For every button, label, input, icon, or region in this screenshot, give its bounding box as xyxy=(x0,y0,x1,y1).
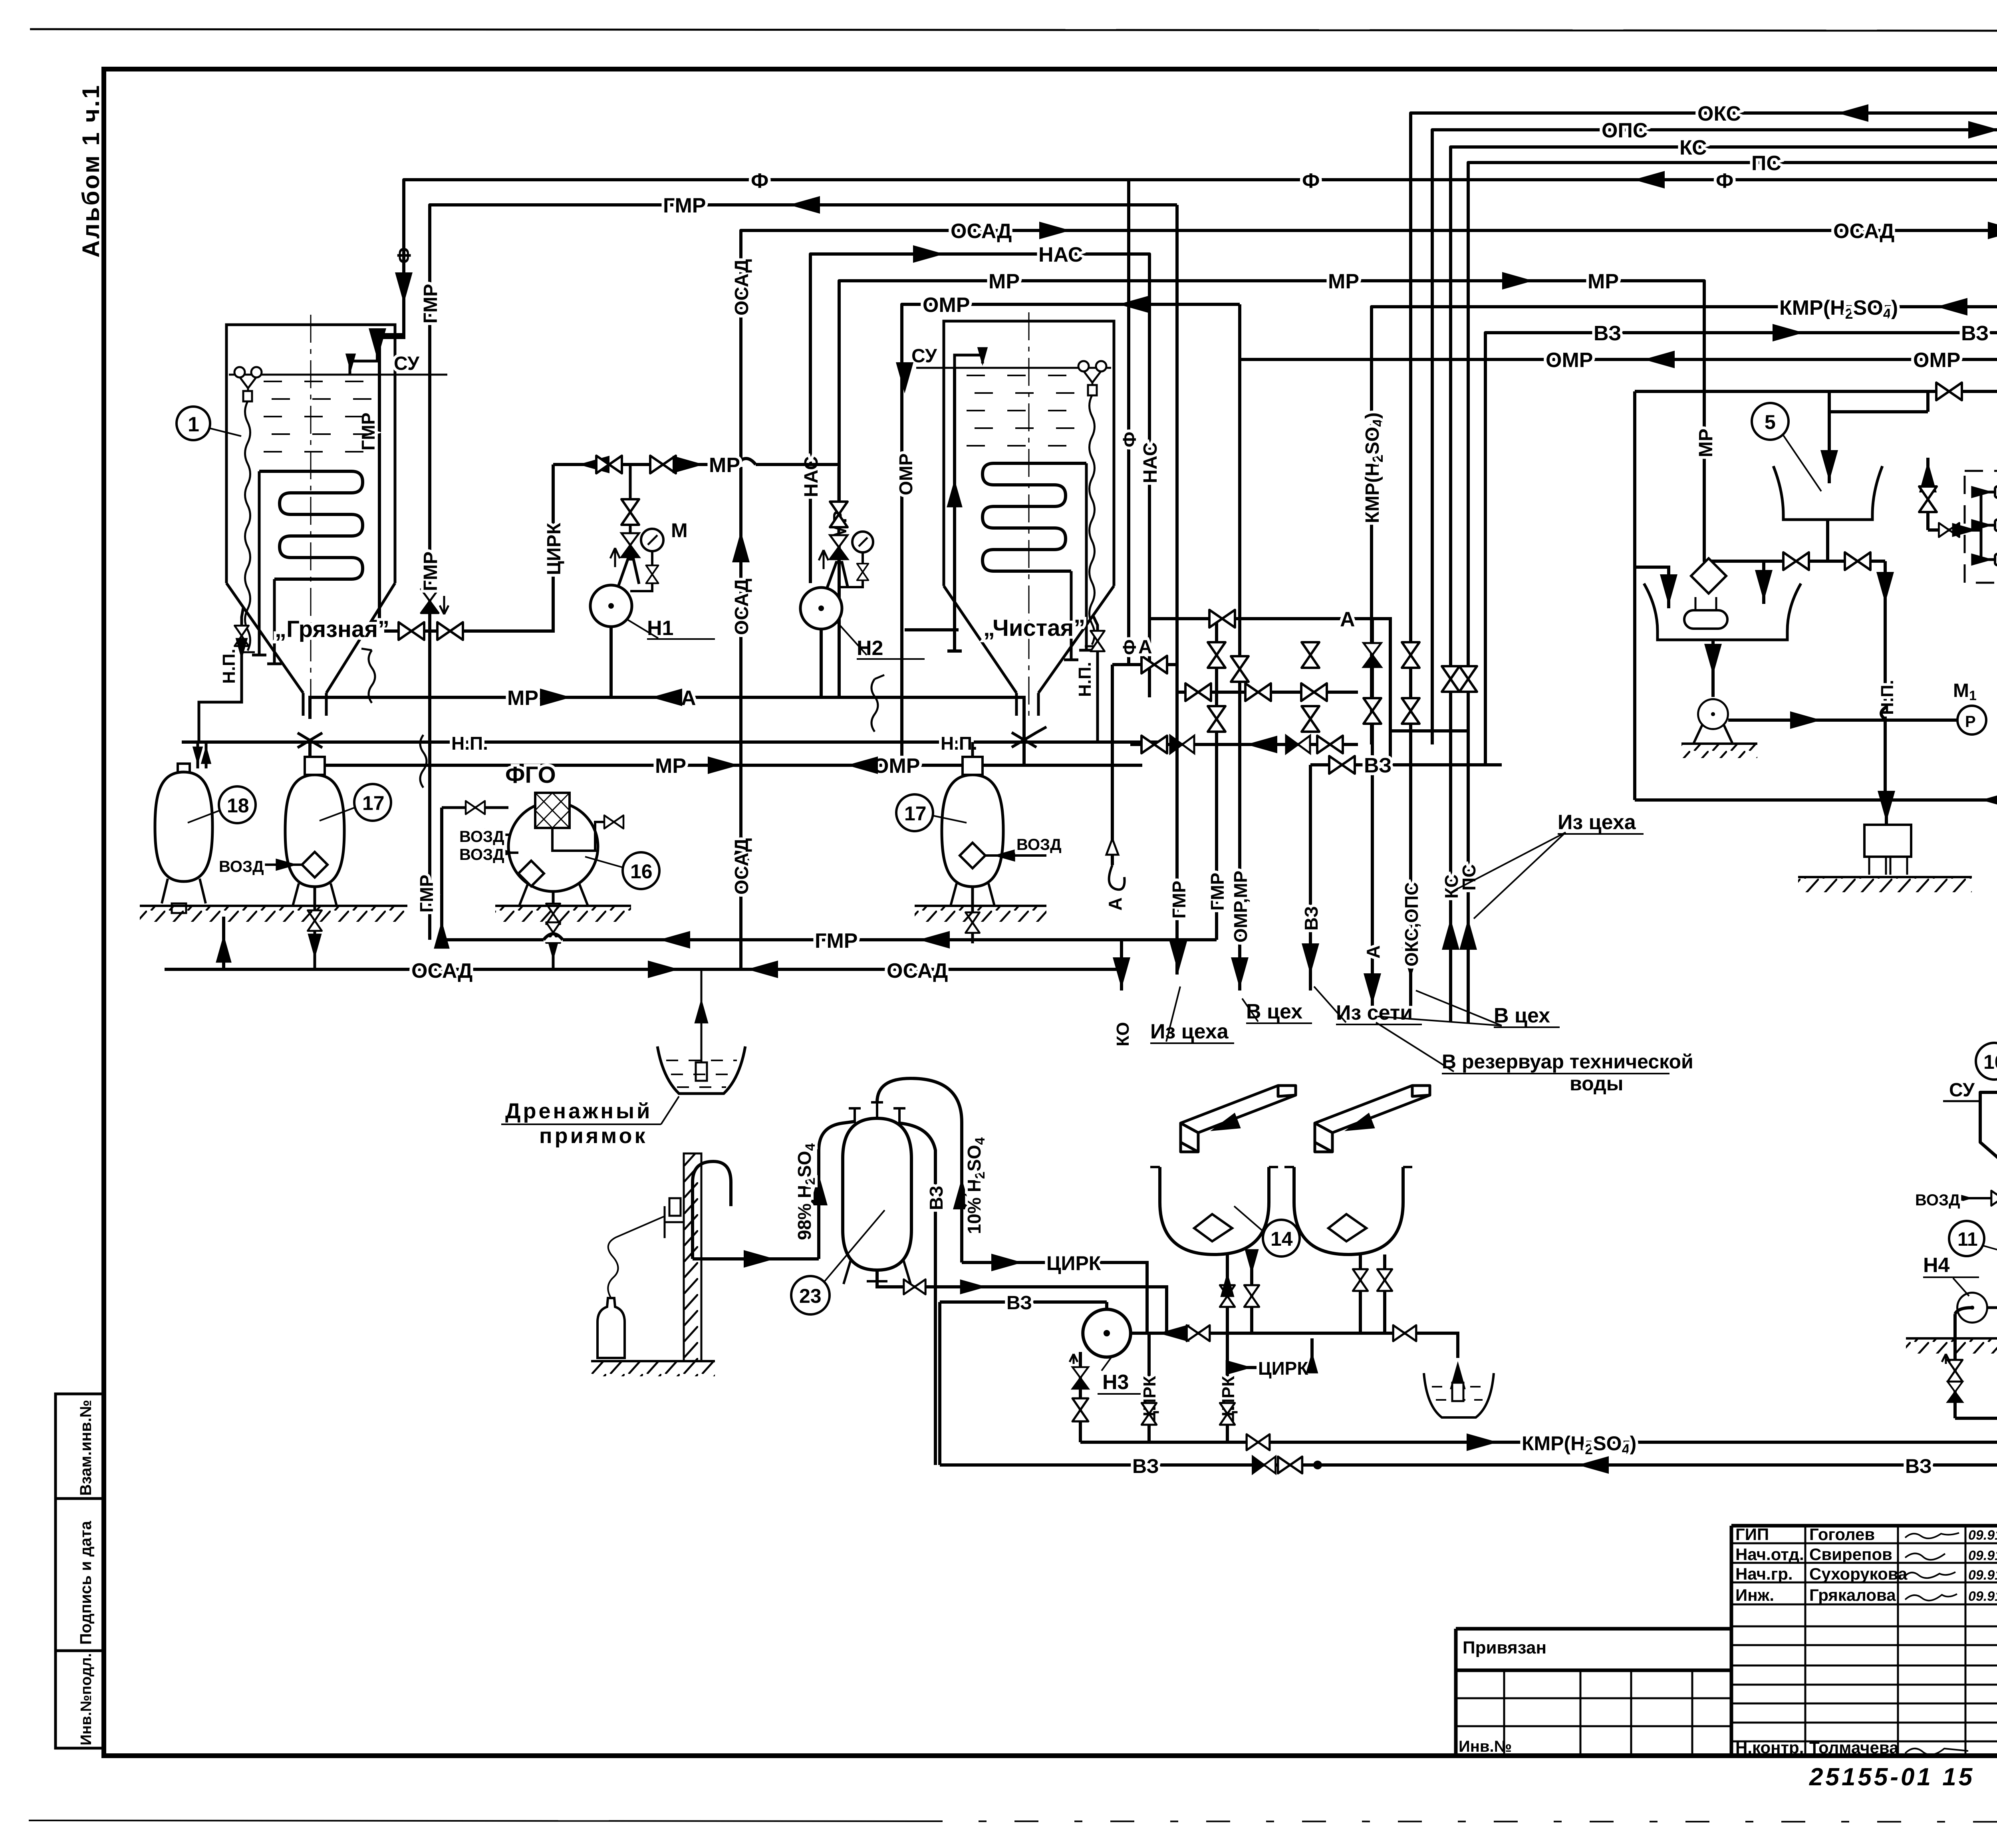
svg-text:Н1: Н1 xyxy=(647,617,673,640)
svg-text:ОМР: ОМР xyxy=(923,294,970,317)
svg-text:Из цеха: Из цеха xyxy=(1558,811,1636,834)
pipe КС top xyxy=(1451,147,1997,765)
М1 motor xyxy=(1957,706,1986,734)
svg-text:Н3: Н3 xyxy=(1102,1371,1129,1394)
svg-text:Толмачева: Толмачева xyxy=(1809,1738,1899,1757)
H1 suction xyxy=(609,627,613,697)
H1 discharge column xyxy=(618,464,639,586)
svg-text:Н.П.: Н.П. xyxy=(1075,662,1095,697)
valve on ГМР vertical xyxy=(421,589,439,613)
vessel 17 right xyxy=(942,775,1003,887)
tank 1 Ф-ГМР inlet riser xyxy=(371,180,404,621)
tub outlet to pump xyxy=(1711,640,1715,697)
pump Н4 xyxy=(1957,1293,1987,1323)
ФГО inlet valve left xyxy=(442,806,508,809)
vessel 23 bottom outlet xyxy=(877,1270,1167,1333)
manifold valves on verticals xyxy=(1208,642,1225,668)
H2 suction xyxy=(820,629,823,697)
pump left unit5 xyxy=(1698,699,1728,729)
svg-text:ОКС,ОПС: ОКС,ОПС xyxy=(1401,882,1422,967)
bottom arrows of manifold verticals xyxy=(1169,941,1187,973)
left stamp column xyxy=(56,1394,104,1748)
Н4 drop xyxy=(1955,1308,1972,1418)
ЦИРК line from 23 xyxy=(962,1262,1147,1333)
tank 2 water dashes xyxy=(967,375,1078,446)
pipe ОКС top xyxy=(1411,113,1997,765)
svg-text:ВЗ: ВЗ xyxy=(1905,1455,1932,1477)
svg-text:ГМР: ГМР xyxy=(420,284,441,324)
svg-text:приямок: приямок xyxy=(539,1124,648,1148)
svg-text:09.91г: 09.91г xyxy=(1968,1528,1997,1543)
svg-text:ВЗ: ВЗ xyxy=(1961,322,1989,345)
svg-text:ВЗ: ВЗ xyxy=(1301,906,1322,931)
svg-text:Н4: Н4 xyxy=(1923,1254,1950,1277)
drop from tank1 neck xyxy=(308,742,312,765)
pipe ОСАД top xyxy=(741,230,1997,969)
svg-text:МР: МР xyxy=(989,270,1020,293)
tank 2 coil feed stubs xyxy=(1064,463,1094,660)
tank 1 Н.П. branch xyxy=(199,608,243,742)
svg-text:ОМР: ОМР xyxy=(873,754,920,778)
pump discharge to М1 xyxy=(1728,719,1972,722)
tank 2 Н.П. branch xyxy=(1093,616,1098,742)
svg-text:ОКС: ОКС xyxy=(1697,102,1741,125)
node КС vert lower xyxy=(1449,765,1452,1022)
manifold mid row y1733 xyxy=(1177,691,1358,694)
svg-text:ВОЗД: ВОЗД xyxy=(219,858,264,875)
tank 2 coil xyxy=(983,463,1086,571)
pipe ОМР right xyxy=(1240,359,1997,561)
svg-text:ВЗ: ВЗ xyxy=(1006,1292,1032,1314)
vessel 18 feed xyxy=(198,742,206,768)
H3 drain column xyxy=(1079,1352,1082,1442)
pipe МР top xyxy=(839,281,1764,697)
svg-text:КМР(H2SO4): КМР(H2SO4) xyxy=(1779,296,1898,322)
ground hatch xyxy=(1906,1337,1997,1340)
tank 1 cone xyxy=(226,583,395,716)
svg-text:10: 10 xyxy=(1983,1051,1997,1073)
svg-text:ЦИРК: ЦИРК xyxy=(1258,1358,1308,1379)
exchanger piping xyxy=(1981,492,1997,583)
arrows on ОСАД vertical xyxy=(732,531,750,562)
svg-text:НАС: НАС xyxy=(801,456,822,497)
manifold ВЗ row y1915 xyxy=(1310,763,1502,766)
svg-text:ОМР: ОМР xyxy=(1546,349,1593,372)
ЦИРК verticals xyxy=(1147,1333,1151,1442)
svg-text:Нач.отд.: Нач.отд. xyxy=(1735,1545,1804,1564)
svg-text:Привязан: Привязан xyxy=(1463,1638,1546,1657)
svg-text:В цех: В цех xyxy=(1494,1004,1550,1027)
unit5 inlet branch to tank5 xyxy=(1828,391,1831,483)
svg-text:16: 16 xyxy=(630,860,653,883)
label circle 1 xyxy=(177,407,210,440)
pipe Ф top xyxy=(377,180,1997,519)
svg-text:КМР(H2SO4): КМР(H2SO4) xyxy=(1362,413,1386,523)
bottle xyxy=(598,1298,625,1358)
svg-text:МР: МР xyxy=(709,454,740,477)
exchanger tubes xyxy=(1995,486,1997,565)
H1 small arrow xyxy=(610,548,620,567)
svg-text:Гоголев: Гоголев xyxy=(1809,1525,1875,1544)
svg-text:18: 18 xyxy=(227,794,249,817)
page bottom edge xyxy=(29,1820,919,1821)
svg-text:ГМР: ГМР xyxy=(420,552,441,591)
inlet arrow into lower tub from boundary xyxy=(1635,567,1669,608)
svg-text:ВЗ: ВЗ xyxy=(1594,322,1621,345)
svg-text:09.91г: 09.91г xyxy=(1968,1548,1997,1563)
svg-text:ОСАД: ОСАД xyxy=(731,259,752,316)
tank 2 float switches xyxy=(1078,361,1089,371)
pipe НАС top xyxy=(810,254,1149,697)
unit5 left boundary xyxy=(1633,391,1636,800)
tank 1 coil xyxy=(259,471,363,579)
arrow right on ВЗ xyxy=(1773,324,1804,341)
svg-text:МР: МР xyxy=(1328,270,1359,293)
svg-text:Ф: Ф xyxy=(751,169,768,193)
svg-text:ВОЗД: ВОЗД xyxy=(1915,1191,1960,1209)
ФГО supports xyxy=(519,883,588,906)
H1 discharge header МР xyxy=(553,463,839,466)
unit5 top header xyxy=(1635,390,1997,393)
arrows on top runs xyxy=(369,104,1997,862)
svg-text:Ф: Ф xyxy=(1716,169,1733,193)
pump H2 xyxy=(800,588,842,629)
header ОСАД bottom y2427 xyxy=(165,968,1122,971)
manifold verticals xyxy=(1129,180,1468,1022)
vessel 17L bottom drop xyxy=(314,887,316,969)
tank 1 water dashes xyxy=(264,381,383,452)
arrow down on Ф drop xyxy=(369,328,386,359)
svg-text:Н.П.: Н.П. xyxy=(219,649,239,684)
header МР-А y1746 xyxy=(310,697,1024,765)
svg-text:Ф: Ф xyxy=(1119,432,1140,447)
vessel 23 legs xyxy=(844,1260,911,1284)
svg-text:ГМР: ГМР xyxy=(358,413,379,451)
H2 gauge xyxy=(852,532,873,552)
svg-text:Альбом 1 ч.1: Альбом 1 ч.1 xyxy=(77,84,104,258)
manifold low row y1864 xyxy=(1130,743,1358,746)
tank 5 (upper tub) xyxy=(1773,466,1882,520)
drain pit xyxy=(657,1046,745,1094)
svg-text:Инж.: Инж. xyxy=(1735,1586,1774,1604)
label 11 xyxy=(1949,1221,1984,1256)
H1 circulation loop xyxy=(384,464,553,631)
98% feed pipe up xyxy=(819,1122,855,1259)
exchanger inlet xyxy=(1928,528,1981,532)
label 23 xyxy=(791,1276,830,1314)
tank 14 right xyxy=(1294,1167,1403,1254)
svg-text:23: 23 xyxy=(799,1285,822,1307)
svg-text:СУ: СУ xyxy=(394,353,420,374)
tank 14 left xyxy=(1160,1167,1269,1254)
tank5 outlet manifold xyxy=(1764,560,1885,563)
arrow right on ОПС xyxy=(1968,121,1997,139)
node ГМР vert 1 xyxy=(1175,205,1179,975)
vessel 17L diamond xyxy=(302,852,328,877)
ground under bottle xyxy=(591,1360,715,1362)
tank 2 centerline xyxy=(1028,312,1030,717)
svg-text:ВОЗД: ВОЗД xyxy=(459,846,504,863)
svg-text:СУ: СУ xyxy=(911,345,937,367)
manifold КС-ПС link xyxy=(1390,729,1468,732)
ВЗ bottom line y3668 xyxy=(940,1398,1997,1465)
svg-text:09.91г: 09.91г xyxy=(1968,1589,1997,1604)
svg-text:Ф: Ф xyxy=(1302,169,1320,193)
Ф return line xyxy=(1955,1398,1997,1418)
vessel 17R ВОЗД xyxy=(985,854,1046,857)
arrows right on МР xyxy=(1502,272,1533,290)
rotated net labels lower xyxy=(1105,432,1479,967)
tank 1 centerline xyxy=(310,315,312,717)
svg-text:11: 11 xyxy=(1957,1229,1978,1250)
svg-text:В резервуар технической: В резервуар технической xyxy=(1442,1050,1693,1073)
pipe over wall xyxy=(693,1161,731,1259)
arrows left on ОМР xyxy=(1644,351,1675,368)
feed to vessel 23 xyxy=(693,1257,819,1260)
svg-text:09.91г: 09.91г xyxy=(1968,1568,1997,1583)
node ПС vert lower xyxy=(1467,765,1470,1022)
svg-text:МР: МР xyxy=(655,754,686,778)
10% H2SO4 pipe xyxy=(877,1078,962,1262)
header ГМР bottom y2353 xyxy=(442,938,1217,941)
svg-text:98% H2SO4: 98% H2SO4 xyxy=(794,1143,818,1240)
svg-text:А: А xyxy=(1340,608,1355,631)
svg-text:ГМР: ГМР xyxy=(1169,881,1189,919)
svg-text:ВЗ: ВЗ xyxy=(926,1186,947,1210)
svg-text:НАС: НАС xyxy=(1038,243,1083,266)
svg-text:Р: Р xyxy=(1965,713,1976,730)
svg-text:КМР(H2SO4): КМР(H2SO4) xyxy=(1522,1432,1636,1457)
svg-text:Н.П.: Н.П. xyxy=(451,733,488,754)
ВОЗД valve xyxy=(1944,1197,1997,1199)
svg-text:ОМР,МР: ОМР,МР xyxy=(1230,871,1251,943)
svg-text:СУ: СУ xyxy=(1949,1080,1975,1101)
svg-text:КС: КС xyxy=(1679,136,1707,159)
arrow left on КМР xyxy=(1936,298,1967,316)
svg-text:ОСАД: ОСАД xyxy=(951,220,1012,243)
Н.П. crossing bump xyxy=(1881,707,1886,720)
unit5 bottom line xyxy=(1635,798,1997,802)
header МР-ОМР y1916 xyxy=(310,764,1142,767)
tank 2 sensor cable xyxy=(1085,395,1099,646)
node А vert xyxy=(1371,619,1374,1006)
svg-text:ВОЗД: ВОЗД xyxy=(1016,836,1062,854)
vessel 17R drops xyxy=(971,742,974,943)
H3 ВЗ top loop xyxy=(940,1302,1107,1465)
svg-text:Инв.№: Инв.№ xyxy=(1459,1738,1512,1755)
small tub right xyxy=(1424,1373,1494,1417)
capsule in tub xyxy=(1684,610,1727,629)
flexible joints xyxy=(361,649,375,703)
pipe КМР top xyxy=(1372,307,1997,744)
svg-text:ВЗ: ВЗ xyxy=(1132,1455,1159,1477)
ВЗ nozzle pipe xyxy=(899,1123,935,1465)
label 10 xyxy=(1976,1043,1997,1080)
svg-text:Н.П.: Н.П. xyxy=(1878,680,1897,715)
label 14 xyxy=(1263,1220,1300,1256)
svg-text:ОСАД: ОСАД xyxy=(887,959,948,983)
drain pit feed line xyxy=(701,969,703,1070)
tank 2 ОМР feed xyxy=(905,628,959,631)
tank 2 cone xyxy=(944,586,1114,716)
siphon on А vert xyxy=(1109,865,1125,889)
H1 gauge M xyxy=(641,529,663,551)
tank 1 level sensor cable xyxy=(240,401,255,652)
ЦИРК horizontal xyxy=(1228,1338,1312,1368)
tank 1 coil feed stubs xyxy=(252,471,282,664)
right branch Н.П. xyxy=(1884,561,1887,800)
svg-text:Взам.инв.№: Взам.инв.№ xyxy=(77,1400,95,1496)
svg-text:А: А xyxy=(1363,945,1384,959)
svg-text:МР: МР xyxy=(1695,429,1717,457)
node КО vert xyxy=(1120,940,1123,990)
drops from tanks 14 xyxy=(1227,1254,1385,1435)
svg-text:ОСАД: ОСАД xyxy=(731,579,752,635)
tank 2 shell xyxy=(944,321,1114,586)
svg-text:А: А xyxy=(1138,637,1152,658)
valve under tank1 neck xyxy=(298,733,322,748)
tank 1 shell xyxy=(226,325,395,583)
labels on top runs xyxy=(663,102,1997,372)
node ВЗ vert xyxy=(1309,765,1312,990)
pipe Ф inlet stub tank1 xyxy=(376,335,379,361)
svg-text:Из цеха: Из цеха xyxy=(1150,1020,1229,1043)
svg-text:14: 14 xyxy=(1270,1228,1293,1250)
svg-text:ОСАД: ОСАД xyxy=(731,838,752,895)
hose wavy xyxy=(608,1217,664,1298)
node ОКС-ОПС vert merge xyxy=(1409,765,1412,1006)
svg-text:ГМР: ГМР xyxy=(416,875,437,913)
svg-text:1: 1 xyxy=(188,413,199,436)
pipe ОПС top xyxy=(1432,130,1997,744)
ground hatch under vessels xyxy=(140,905,407,907)
svg-text:Дренажный: Дренажный xyxy=(505,1099,652,1123)
tank 2 СУ step xyxy=(955,355,983,368)
svg-text:МР: МР xyxy=(507,687,538,710)
pump H1 xyxy=(590,585,632,627)
svg-text:ОМР: ОМР xyxy=(1913,349,1960,372)
bracket on wall xyxy=(665,1206,684,1238)
svg-text:ОСАД: ОСАД xyxy=(1833,220,1894,243)
svg-text:ЦИРК: ЦИРК xyxy=(544,522,565,575)
svg-text:10% H2SO4: 10% H2SO4 xyxy=(964,1137,988,1234)
lower tub left xyxy=(1644,584,1801,640)
vessel 18 xyxy=(155,772,212,881)
page top edge xyxy=(30,29,1997,31)
svg-text:5: 5 xyxy=(1765,411,1776,433)
svg-text:„Грязная”: „Грязная” xyxy=(275,616,389,642)
pipe ОМР mid xyxy=(902,304,1240,765)
svg-text:Нач.гр.: Нач.гр. xyxy=(1735,1564,1793,1583)
heat exchanger dashed box xyxy=(1965,471,1997,583)
svg-text:ВЗ: ВЗ xyxy=(1364,754,1392,777)
label circle 5 xyxy=(1752,403,1789,440)
svg-text:ГМР: ГМР xyxy=(663,194,706,217)
left branch into tub xyxy=(1762,561,1765,604)
node Ф vert xyxy=(1127,180,1130,665)
stand box xyxy=(1864,825,1911,857)
wall hatched column xyxy=(684,1153,701,1361)
ФГО bottom drop xyxy=(552,891,555,969)
svg-text:ОМР: ОМР xyxy=(895,453,916,495)
arrows right on ОСАД xyxy=(1039,222,1070,239)
arrow left on ГМР xyxy=(789,196,820,214)
vessel 23 body xyxy=(843,1118,911,1270)
svg-text:КО: КО xyxy=(1113,1022,1133,1046)
tank 1 water level xyxy=(229,374,447,376)
chute left (3d duct) xyxy=(1181,1086,1296,1152)
svg-text:А: А xyxy=(1105,897,1126,911)
vessel 17 left xyxy=(285,775,344,887)
diamond filter above tub xyxy=(1691,558,1726,594)
svg-text:ГМР: ГМР xyxy=(1207,873,1228,911)
svg-text:ВОЗД: ВОЗД xyxy=(459,828,504,846)
svg-text:Сухорукова: Сухорукова xyxy=(1809,1564,1908,1583)
svg-text:Инв.№подл.: Инв.№подл. xyxy=(78,1653,95,1745)
tank 2 water level xyxy=(916,367,1111,369)
svg-text:МР: МР xyxy=(1588,270,1619,293)
rotated labels on verticals xyxy=(394,247,1997,895)
H2 discharge column xyxy=(827,467,848,589)
manifold row A2 y1664 xyxy=(1112,663,1178,666)
svg-text:А: А xyxy=(681,687,696,710)
ГМР riser to ФГО xyxy=(440,808,443,940)
pipe ВЗ top xyxy=(1485,333,1997,765)
svg-text:ГИП: ГИП xyxy=(1735,1525,1769,1544)
arrows left on Ф xyxy=(1634,171,1665,189)
svg-text:Свирепов: Свирепов xyxy=(1809,1545,1892,1564)
vessel 17L ВОЗД xyxy=(256,863,302,866)
svg-text:Н.контр.: Н.контр. xyxy=(1735,1738,1804,1757)
node ГМР vert 2 xyxy=(1215,619,1218,940)
svg-text:М: М xyxy=(671,519,688,542)
svg-text:25155-01 15: 25155-01 15 xyxy=(1809,1763,1975,1791)
exchanger feed column xyxy=(1926,458,1930,530)
ФГО ВОЗД lines xyxy=(459,835,518,853)
tank 2 overflow riser xyxy=(947,368,962,651)
svg-text:Ф: Ф xyxy=(1119,639,1140,655)
arrow right on НАС xyxy=(913,245,944,263)
svg-text:Грякалова: Грякалова xyxy=(1809,1586,1896,1604)
svg-text:ФГО: ФГО xyxy=(505,762,556,788)
vessel 17R diamond xyxy=(960,843,985,868)
svg-text:ОПС: ОПС xyxy=(1602,119,1648,142)
svg-text:17: 17 xyxy=(904,802,927,825)
svg-text:ЦИРК: ЦИРК xyxy=(1046,1252,1101,1274)
svg-text:В цех: В цех xyxy=(1246,1000,1302,1023)
pipe ПС top xyxy=(1468,163,1997,765)
КМР bottom line y3611 xyxy=(1080,1398,1997,1442)
svg-text:Из сети: Из сети xyxy=(1336,1001,1413,1024)
manifold row A y1549 xyxy=(1151,619,1390,765)
vessel 23 nozzles xyxy=(849,1102,905,1123)
H2 small arrow xyxy=(819,550,828,569)
H3 suction line xyxy=(1131,1333,1458,1358)
tank 1 float switches xyxy=(234,367,245,377)
chute right xyxy=(1315,1086,1430,1152)
svg-text:„Чистая”: „Чистая” xyxy=(983,615,1085,641)
svg-text:ГМР: ГМР xyxy=(815,929,858,953)
svg-text:НАС: НАС xyxy=(1140,442,1161,483)
svg-text:Подпись и дата: Подпись и дата xyxy=(77,1520,95,1645)
header Н.П. y1858 xyxy=(182,740,1166,744)
node ОМР-МР vert xyxy=(1238,304,1241,990)
svg-text:ОСАД: ОСАД xyxy=(411,959,472,983)
pipe ГМР top xyxy=(430,205,1177,940)
drop to stand xyxy=(1885,800,1888,824)
valve under tank2 neck xyxy=(1012,727,1046,747)
tank5 outlet xyxy=(1826,520,1829,561)
